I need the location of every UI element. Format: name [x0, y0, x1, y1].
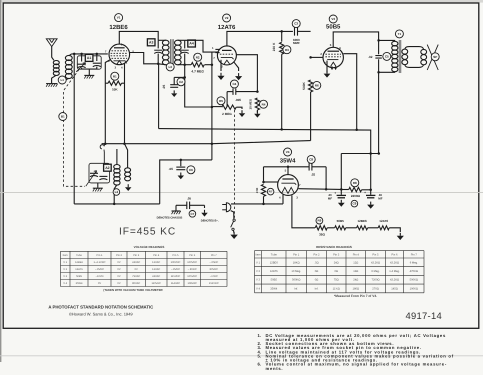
- wire V3 grid: [311, 56, 323, 58]
- svg-text:IF=455 KC: IF=455 KC: [119, 227, 176, 238]
- capacitor C3 6000MMF: [294, 27, 296, 36]
- wire AVC bus: [102, 141, 311, 144]
- svg-text:R9: R9: [317, 219, 321, 223]
- node AVC junction: [183, 63, 186, 66]
- svg-text:L3: L3: [168, 65, 172, 69]
- resistor R4 10MEG: [255, 98, 259, 110]
- svg-text:Inf.: Inf.: [294, 287, 298, 290]
- node V4 plate: [287, 166, 290, 169]
- trimmer C1A-t: [96, 54, 98, 61]
- tuning capacitor C1A: [81, 54, 83, 62]
- wire fil end: [389, 228, 400, 232]
- ground (legend chassis): [172, 210, 181, 212]
- svg-text:Pin 4: Pin 4: [353, 253, 360, 256]
- svg-text:C3: C3: [294, 22, 298, 26]
- svg-text:A2: A2: [105, 166, 109, 170]
- svg-text:R3: R3: [285, 48, 289, 52]
- svg-text:.05: .05: [162, 85, 166, 90]
- svg-text:114VAC: 114VAC: [171, 282, 180, 285]
- svg-text:12VAC: 12VAC: [152, 261, 160, 264]
- node IF primary bottom: [157, 63, 160, 66]
- wire C3 to grid: [298, 30, 311, 32]
- speaker voice coil: [421, 49, 427, 54]
- svg-text:10 Meg.: 10 Meg.: [291, 270, 301, 273]
- wire V4 heater pin4: [264, 181, 278, 183]
- wire AVC branch: [185, 65, 212, 107]
- gang trimmer label A1: [85, 54, 93, 61]
- svg-text:Pin 7: Pin 7: [211, 254, 217, 257]
- capacitor C8 .02: [308, 163, 310, 171]
- trimmer label A3: [147, 39, 155, 46]
- label R3: [283, 46, 291, 54]
- node filter output: [369, 189, 372, 192]
- node AVC to grid: [211, 63, 214, 66]
- filament 12AT6: [378, 226, 389, 230]
- coil L1 secondary: [65, 55, 72, 60]
- wire B+ link to OT: [341, 153, 379, 155]
- svg-text:24Ω: 24Ω: [334, 261, 339, 264]
- wire volume wiper dashed: [234, 110, 236, 218]
- wire V4 pin3 drop: [282, 195, 284, 204]
- svg-text:A4: A4: [189, 42, 193, 46]
- svg-text:A PHOTOFACT STANDARD NOTATI: A PHOTOFACT STANDARD NOTATION SCHEMATIC: [48, 304, 153, 309]
- svg-text:C7: C7: [190, 212, 194, 216]
- node filter input: [340, 188, 343, 191]
- tube V4 35W4: [278, 175, 299, 196]
- svg-text:110VAC: 110VAC: [152, 282, 161, 285]
- svg-text:35W4: 35W4: [270, 287, 278, 290]
- svg-text:105VDC: 105VDC: [187, 275, 197, 278]
- wire IF primary top: [158, 39, 166, 41]
- wire IF primary bottom: [158, 63, 166, 66]
- node 220K tap: [280, 30, 283, 33]
- wire V2 heater stub: [234, 62, 239, 71]
- svg-text:©Howard W. Sams & Co., Inc. 19: ©Howard W. Sams & Co., Inc. 1949: [69, 311, 133, 316]
- svg-text:Pin 1: Pin 1: [293, 253, 300, 256]
- svg-text:145Ω: 145Ω: [391, 287, 398, 290]
- svg-text:*Measured From Pin 7 of V4.: *Measured From Pin 7 of V4.: [334, 294, 377, 298]
- label C6: [187, 166, 195, 174]
- svg-text:0V: 0V: [98, 282, 101, 285]
- lower fold line: [0, 355, 483, 357]
- trimmer label A4: [188, 40, 196, 47]
- wire grid line 12BE6: [72, 53, 108, 55]
- IF secondary coil: [175, 40, 182, 45]
- wire V2 cathode: [220, 60, 222, 71]
- trimmer A4: [184, 40, 186, 48]
- svg-text:Pin 6: Pin 6: [391, 253, 398, 256]
- label V3: [329, 15, 337, 23]
- svg-text:C5: C5: [385, 54, 389, 58]
- svg-text:V4: V4: [286, 150, 290, 154]
- capacitor C9B 40MF: [370, 190, 372, 195]
- node grid line junctions: [73, 53, 76, 56]
- label L3: [166, 63, 174, 71]
- svg-text:R2: R2: [196, 55, 200, 59]
- oscillator coil L2: [114, 165, 120, 170]
- resistor R8 2200: [349, 187, 362, 191]
- wire AVC line: [185, 64, 191, 66]
- ground arrow (switch B-): [233, 232, 235, 235]
- label C8: [307, 155, 315, 163]
- label C4: [230, 80, 238, 88]
- wire V3 cathode: [326, 61, 328, 73]
- svg-text:Pin 3: Pin 3: [133, 254, 139, 257]
- svg-text:100VDC: 100VDC: [187, 261, 197, 264]
- svg-text:0Ω: 0Ω: [315, 279, 319, 282]
- wire osc gang bottom: [97, 183, 99, 188]
- gang dashed link B1: [64, 70, 85, 187]
- antenna coil L1 primary: [53, 61, 59, 65]
- svg-text:12BE6: 12BE6: [109, 24, 128, 31]
- node bus taps: [280, 128, 283, 131]
- svg-text:100VDC: 100VDC: [171, 261, 181, 264]
- svg-text:50B5: 50B5: [326, 24, 341, 31]
- wire V4 cathode B+ line: [298, 188, 341, 191]
- svg-text:C8: C8: [309, 157, 313, 161]
- label C2: [177, 78, 185, 86]
- svg-text:.05: .05: [187, 196, 192, 200]
- IF transformer core: [169, 39, 172, 66]
- label L2: [113, 189, 120, 196]
- svg-text:V 4: V 4: [63, 282, 67, 285]
- svg-text:−17DC: −17DC: [210, 275, 218, 278]
- tuning gang box A: [77, 56, 101, 69]
- svg-text:156VDC: 156VDC: [209, 282, 219, 285]
- svg-text:24VAC: 24VAC: [152, 275, 160, 278]
- node C4-R4: [256, 90, 259, 93]
- svg-text:RESISTANCE READINGS: RESISTANCE READINGS: [316, 245, 352, 249]
- gang label A2: [104, 164, 112, 171]
- svg-text:Pin 2: Pin 2: [116, 254, 122, 257]
- svg-text:.02: .02: [368, 55, 373, 59]
- T1 secondary: [402, 49, 408, 54]
- wire fil 2: [346, 227, 357, 229]
- node AVC bus taps: [104, 142, 107, 145]
- wire diode return: [236, 55, 257, 92]
- svg-text:L2: L2: [115, 190, 119, 194]
- svg-text:−.8VDC: −.8VDC: [171, 268, 180, 271]
- svg-text:V 2: V 2: [256, 270, 261, 273]
- wire IF secondary bottom: [178, 64, 185, 66]
- svg-text:500K: 500K: [302, 81, 306, 89]
- svg-text:10K: 10K: [112, 88, 118, 92]
- svg-text:Pin 4: Pin 4: [153, 254, 159, 257]
- legend arrow B-minus: [204, 210, 206, 213]
- wire filter input riser: [340, 154, 342, 190]
- tuning capacitor C1B: [90, 172, 98, 174]
- filament 50B5: [335, 226, 346, 230]
- svg-text:−.05DC: −.05DC: [209, 261, 218, 264]
- svg-text:Tube: Tube: [76, 254, 82, 257]
- svg-text:+: +: [364, 191, 366, 195]
- svg-text:R1: R1: [113, 74, 117, 78]
- wire V3 screen: [343, 54, 356, 130]
- svg-text:Pin 3: Pin 3: [333, 253, 340, 256]
- capacitor C6 .05: [180, 160, 182, 166]
- wire R6 bottom: [310, 92, 312, 141]
- ground arrow (R4): [256, 111, 258, 114]
- ground (gang A): [84, 74, 94, 76]
- svg-text:80VAC: 80VAC: [132, 282, 140, 285]
- svg-text:500KΩ: 500KΩ: [410, 279, 418, 282]
- svg-text:R5: R5: [219, 99, 223, 103]
- svg-text:75Ω: 75Ω: [334, 279, 339, 282]
- ground arrow (tickler): [127, 184, 129, 187]
- svg-text:Pin 7: Pin 7: [411, 253, 418, 256]
- ground arrow (V2 cathode): [220, 73, 222, 76]
- IF primary coil: [162, 40, 169, 45]
- coil pigtail: [100, 144, 104, 164]
- wire IF secondary top: [178, 39, 185, 41]
- svg-text:560KΩ: 560KΩ: [292, 279, 300, 282]
- svg-text:C6: C6: [189, 168, 193, 172]
- svg-text:2 MEG: 2 MEG: [222, 112, 232, 116]
- svg-text:.02: .02: [311, 173, 316, 177]
- speaker SP: [427, 45, 438, 70]
- wire fil 3: [368, 227, 379, 229]
- label R9: [316, 217, 323, 224]
- node R7 tap: [262, 181, 265, 184]
- svg-text:C4: C4: [232, 82, 236, 86]
- antenna: [46, 39, 57, 47]
- svg-text:V 2: V 2: [63, 268, 67, 271]
- capacitor C2 .05: [174, 76, 185, 78]
- svg-text:39Ω: 39Ω: [319, 233, 325, 237]
- svg-text:6 Meg.: 6 Meg.: [371, 270, 379, 273]
- wire pot feed: [212, 106, 222, 108]
- wire ant return: [73, 54, 75, 204]
- resistor R7 47 surge: [263, 167, 265, 184]
- wire AVC vertical: [211, 52, 213, 160]
- node C6 tap: [180, 159, 183, 162]
- label R8: [351, 179, 359, 187]
- svg-text:DENOTES B−.: DENOTES B−.: [201, 220, 219, 223]
- wire plug to line: [231, 203, 283, 205]
- svg-text:12AT6: 12AT6: [218, 24, 236, 31]
- legend capacitor C7 .05: [176, 204, 187, 206]
- node OT top: [377, 39, 380, 42]
- label V2: [223, 14, 231, 22]
- output transformer T1 primary: [379, 40, 395, 41]
- svg-text:24Ω: 24Ω: [353, 279, 358, 282]
- ground arrow (filament B-): [399, 233, 401, 236]
- AC plug: [226, 203, 230, 212]
- svg-text:V 3: V 3: [63, 275, 67, 278]
- wire heater drop: [292, 195, 315, 228]
- svg-text:43,2KΩ: 43,2KΩ: [371, 261, 380, 264]
- wire grid feed V2: [185, 40, 218, 52]
- wire gang A bottom: [82, 67, 97, 69]
- voltage readings table: [61, 250, 228, 252]
- svg-text:12BE6: 12BE6: [270, 261, 279, 264]
- svg-text:1.4 Meg.: 1.4 Meg.: [389, 270, 400, 273]
- svg-text:Item: Item: [255, 253, 261, 256]
- node V3 grid: [309, 56, 312, 59]
- capacitor C5 .02: [378, 40, 380, 54]
- svg-text:R8: R8: [353, 181, 357, 185]
- label B1: [59, 113, 67, 121]
- svg-text:0Ω: 0Ω: [315, 270, 319, 273]
- resistor R6 500K: [309, 80, 313, 92]
- svg-text:0Ω: 0Ω: [334, 270, 338, 273]
- svg-text:V 4: V 4: [256, 287, 261, 290]
- wire V2 plate line: [227, 31, 293, 46]
- svg-text:R4: R4: [262, 102, 266, 106]
- svg-text:MF: MF: [378, 197, 382, 201]
- ground arrow (V3): [326, 71, 328, 74]
- svg-text:5.: 5.: [258, 353, 262, 358]
- svg-text:C9: C9: [352, 202, 356, 206]
- svg-text:7200Ω: 7200Ω: [372, 279, 380, 282]
- svg-text:12Ω: 12Ω: [353, 270, 358, 273]
- svg-text:12AT6: 12AT6: [75, 268, 83, 271]
- label R7: [267, 188, 274, 195]
- label C3: [292, 20, 300, 28]
- T1 core: [399, 40, 402, 73]
- svg-text:−.8VDC: −.8VDC: [95, 268, 104, 271]
- capacitor C9A 40MF: [340, 189, 342, 194]
- svg-text:1.: 1.: [258, 333, 262, 338]
- svg-text:0V: 0V: [117, 275, 120, 278]
- svg-text:2200Ω: 2200Ω: [351, 194, 361, 198]
- svg-text:Pin 2: Pin 2: [313, 253, 320, 256]
- svg-text:12BE6: 12BE6: [75, 261, 83, 264]
- filament 12BE6: [357, 226, 368, 230]
- svg-text:35W4: 35W4: [76, 282, 83, 285]
- svg-text:180Ω: 180Ω: [353, 287, 360, 290]
- svg-text:108VAC: 108VAC: [187, 282, 197, 285]
- svg-text:Inf.: Inf.: [315, 287, 319, 290]
- node L2 tap: [113, 203, 116, 206]
- svg-text:270Ω: 270Ω: [372, 287, 379, 290]
- svg-text:(TAKEN WITH VACUUM TUBE VOLTME: (TAKEN WITH VACUUM TUBE VOLTMETER: [103, 288, 163, 292]
- svg-text:R7: R7: [269, 190, 273, 194]
- svg-text:50B5: 50B5: [337, 219, 345, 223]
- wire R1 stubs: [105, 82, 108, 84]
- wire filter output riser: [370, 154, 372, 190]
- tube V1 12BE6: [109, 44, 130, 65]
- svg-text:V 1: V 1: [256, 261, 261, 264]
- svg-text:10 MEG: 10 MEG: [249, 98, 253, 109]
- resistor R9 39ohm: [315, 226, 327, 230]
- svg-text:24VAC: 24VAC: [132, 261, 140, 264]
- svg-text:Pin 5: Pin 5: [173, 254, 179, 257]
- tube V2 12AT6: [217, 46, 236, 65]
- svg-text:0V: 0V: [117, 268, 120, 271]
- svg-text:Pin 6: Pin 6: [189, 254, 195, 257]
- wire plate line: [264, 166, 310, 168]
- tube V3 50B5: [323, 47, 343, 67]
- label R2: [194, 53, 202, 61]
- svg-text:Volume control at maximum, no: Volume control at maximum, no signal app…: [266, 362, 447, 367]
- svg-text:4.7 MEG: 4.7 MEG: [191, 70, 204, 74]
- svg-text:V 1: V 1: [63, 261, 67, 264]
- label L1: [58, 76, 66, 84]
- node branch: [211, 106, 214, 109]
- svg-text:0V: 0V: [135, 268, 138, 271]
- svg-text:A3: A3: [149, 41, 153, 45]
- node OT bottom: [377, 71, 380, 74]
- svg-text:115VDC: 115VDC: [171, 275, 181, 278]
- wire OT B+ drop: [378, 72, 380, 153]
- svg-text:Pin 1: Pin 1: [97, 254, 103, 257]
- svg-text:6 Meg.: 6 Meg.: [410, 261, 418, 264]
- svg-text:18KΩ: 18KΩ: [293, 261, 300, 264]
- svg-text:47Ω: 47Ω: [255, 187, 259, 193]
- svg-text:−.8VDC: −.8VDC: [188, 268, 197, 271]
- oscillator gang box: [89, 163, 110, 183]
- svg-text:Item: Item: [63, 254, 68, 257]
- svg-text:.5Ω: .5Ω: [314, 261, 318, 264]
- svg-text:V 3: V 3: [256, 279, 261, 282]
- svg-text:+: +: [334, 191, 336, 195]
- wire bus B-plus: [159, 129, 371, 154]
- label V1: [115, 14, 123, 22]
- label C7: [189, 211, 196, 218]
- page top margin band: [0, 0, 483, 3]
- svg-text:V3: V3: [331, 17, 335, 21]
- svg-text:6.: 6.: [258, 362, 262, 367]
- trimmer C1B-t: [99, 175, 107, 177]
- resistance readings table: [255, 250, 425, 252]
- svg-text:Tube: Tube: [271, 253, 278, 256]
- switch S1: [233, 219, 235, 221]
- wire fil 1: [327, 227, 334, 229]
- wire C4 drop: [226, 92, 228, 107]
- potentiometer R5 2MEG: [222, 105, 236, 109]
- node OT B+ join: [369, 152, 372, 155]
- svg-text:80VDC: 80VDC: [210, 268, 218, 271]
- wire filter split: [341, 189, 348, 191]
- svg-text:VOLTAGE READINGS: VOLTAGE READINGS: [134, 245, 165, 249]
- capacitor C4 .005: [232, 88, 234, 95]
- svg-text:L1: L1: [60, 78, 64, 82]
- svg-text:T1: T1: [398, 32, 402, 36]
- page left margin band: [0, 0, 1, 362]
- horizontal fold line: [0, 192, 483, 194]
- svg-text:4917-14: 4917-14: [406, 310, 443, 321]
- svg-text:DENOTES CHASSIS: DENOTES CHASSIS: [157, 216, 183, 219]
- svg-text:11¾Ω: 11¾Ω: [333, 287, 340, 290]
- ground arrow (V2 heater): [238, 73, 240, 76]
- node C8 join: [325, 188, 328, 191]
- svg-text:0V: 0V: [117, 282, 120, 285]
- svg-text:MMF: MMF: [293, 41, 300, 45]
- svg-text:50B5: 50B5: [271, 279, 278, 282]
- svg-text:V2: V2: [225, 16, 229, 20]
- svg-text:MF: MF: [328, 197, 332, 201]
- resistor R1 10K: [108, 81, 122, 85]
- wire V3 plate: [333, 32, 378, 47]
- wire plug to switch: [231, 211, 234, 219]
- label V4: [284, 148, 292, 156]
- svg-text:ments.: ments.: [266, 366, 284, 371]
- svg-text:0V: 0V: [117, 261, 120, 264]
- svg-text:220 K: 220 K: [272, 42, 276, 51]
- svg-text:43,2KΩ: 43,2KΩ: [390, 261, 399, 264]
- svg-text:12AT6: 12AT6: [270, 270, 278, 273]
- resistor R3 220K: [281, 31, 283, 41]
- ground (antenna): [46, 83, 57, 85]
- label SP: [431, 53, 439, 61]
- ground (osc gang): [93, 187, 103, 189]
- wire V1 plate to IF: [119, 31, 158, 44]
- svg-text:B1: B1: [61, 115, 65, 119]
- svg-text:.05: .05: [169, 167, 174, 171]
- svg-text:−10VD: −10VD: [95, 275, 103, 278]
- svg-text:SP: SP: [433, 55, 437, 59]
